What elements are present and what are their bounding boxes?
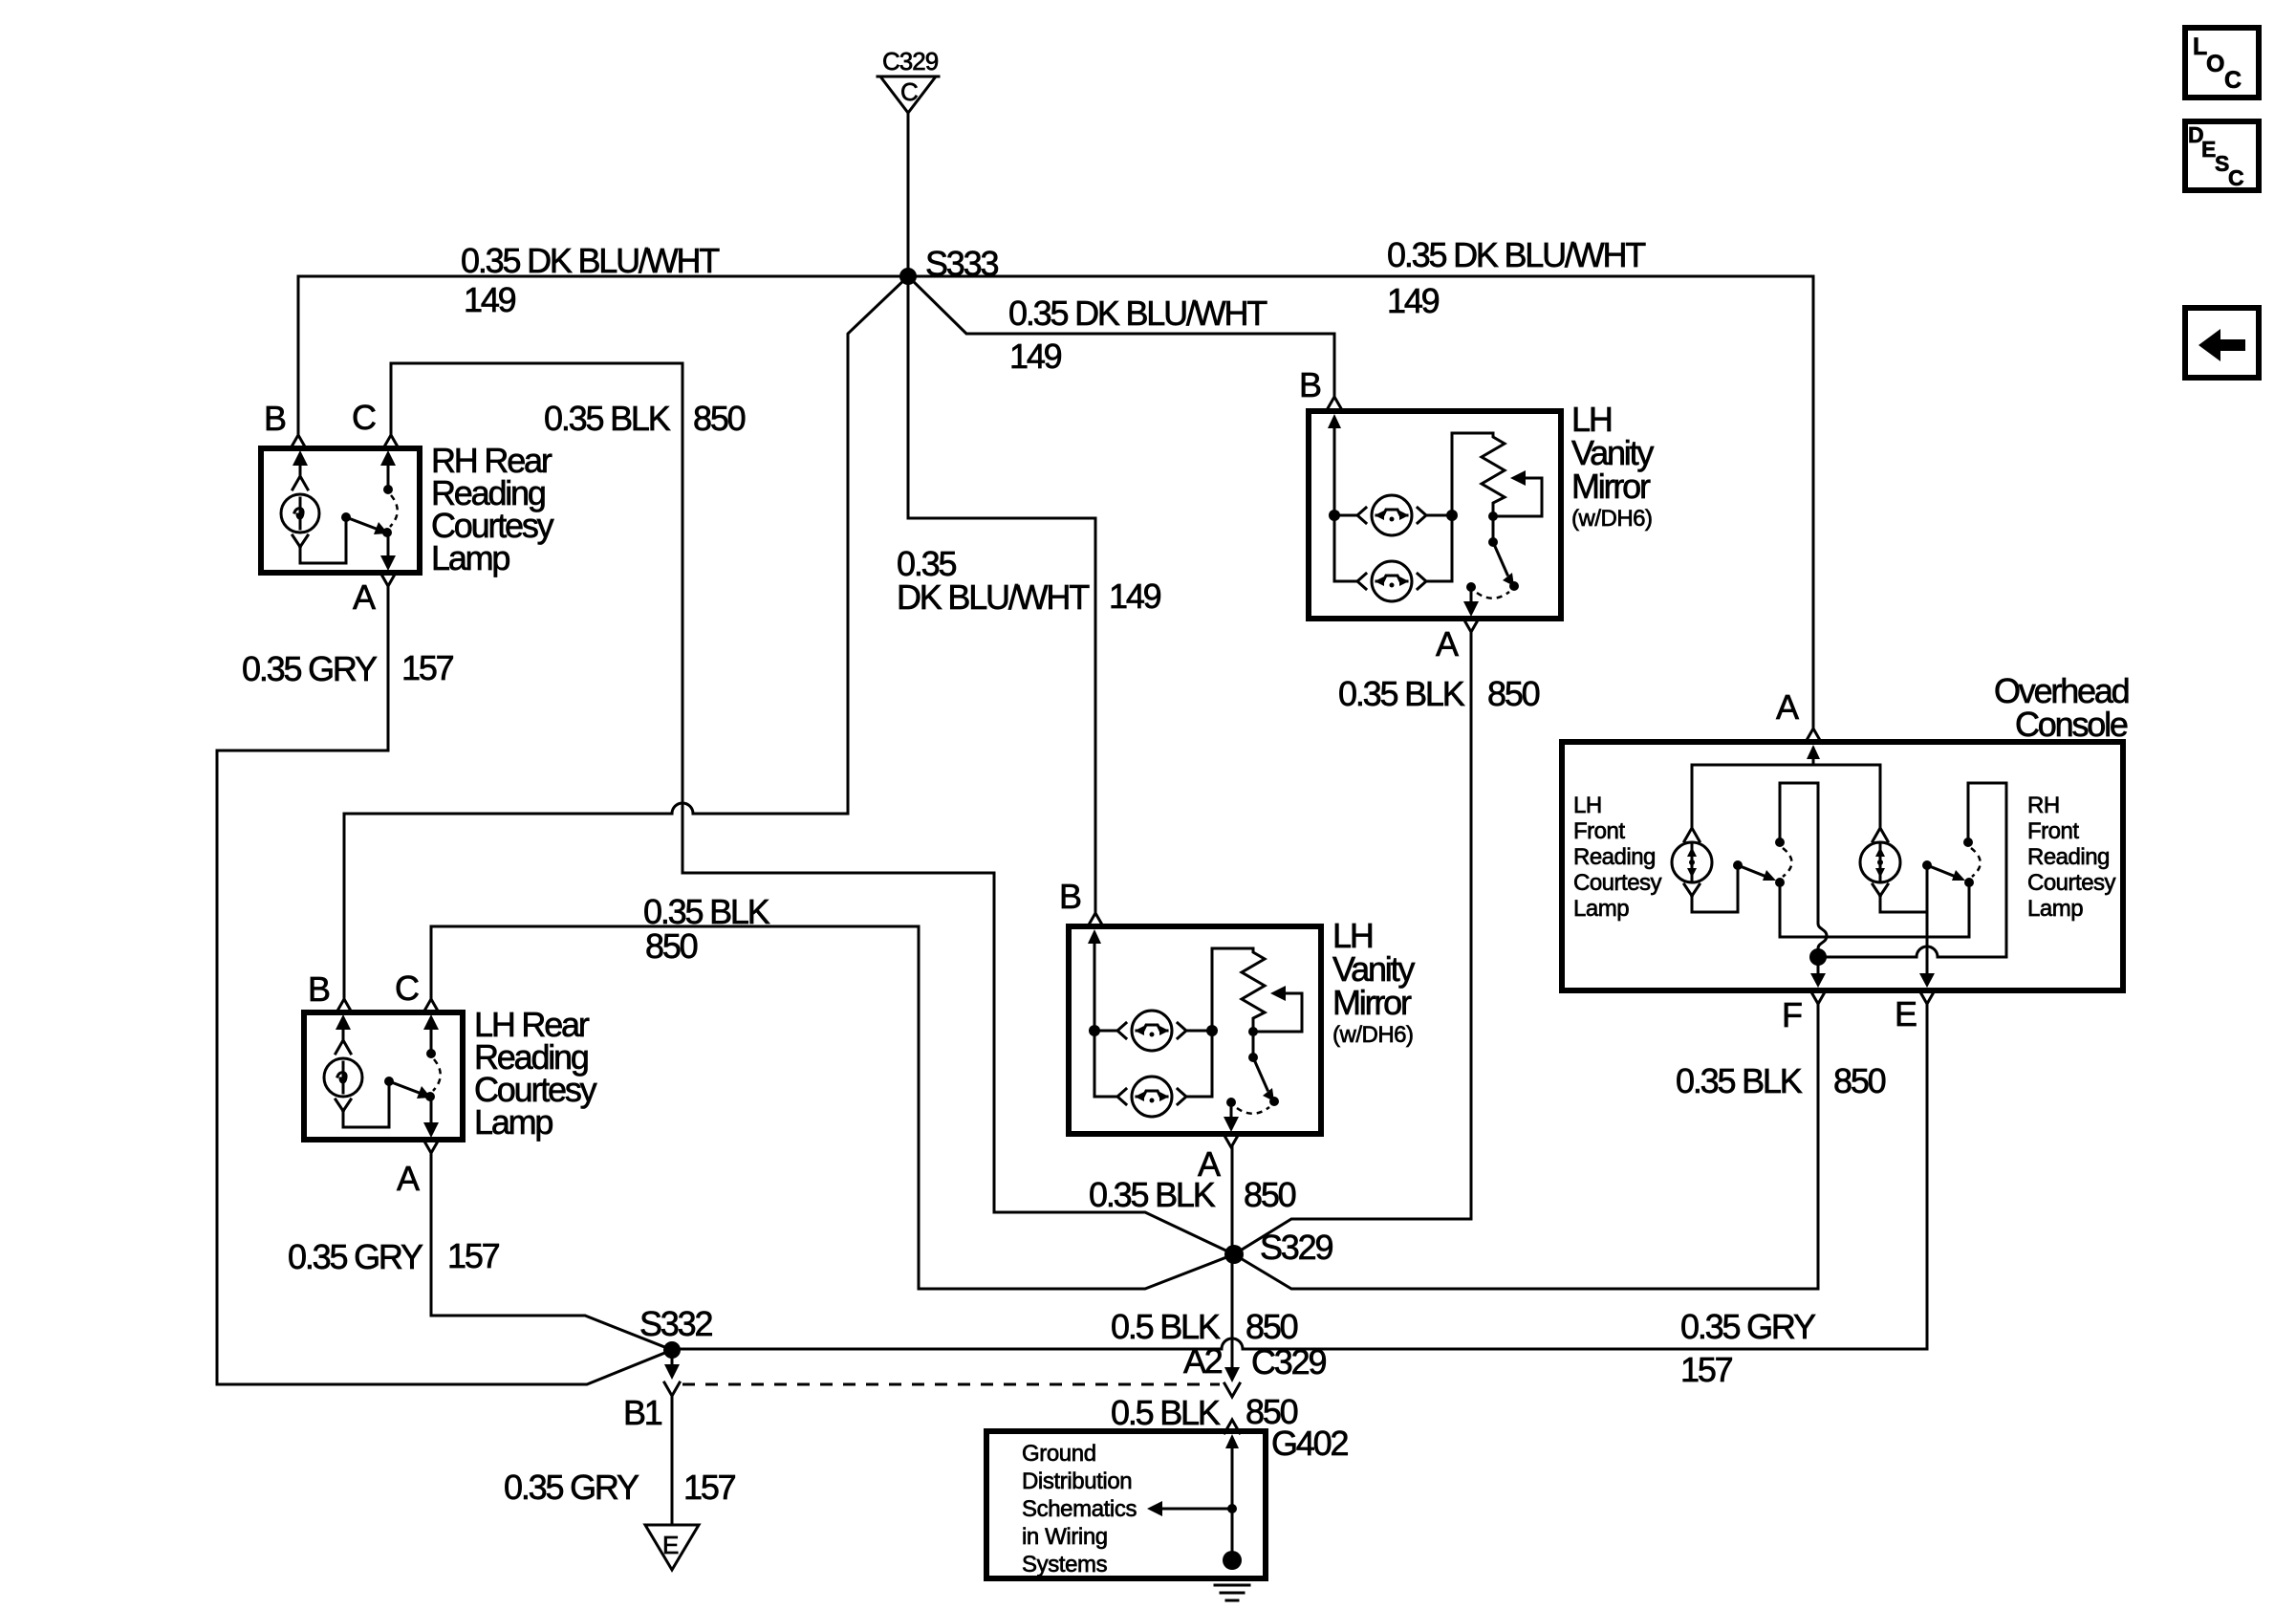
lamp bulb (LH rear): [324, 1058, 362, 1097]
connector E (triangle): [645, 1525, 699, 1570]
svg-text:149: 149: [1109, 577, 1161, 616]
RH switch arm: [1927, 865, 1956, 877]
wire lower vanity pin A to S329 (0.35 BLK 850): [1231, 1147, 1234, 1254]
wire S333 down to lower LH vanity mirror pin B (0.35 DK BLU/WHT 149): [908, 276, 1103, 926]
switch pivot: [384, 1077, 394, 1086]
svg-text:850: 850: [693, 399, 746, 438]
LH Rear Reading Courtesy Lamp: [304, 968, 597, 1198]
RH front lamp bulb: [1873, 765, 1888, 841]
lower vanity lamp 1: [1094, 1023, 1126, 1038]
junction node at pin F: [1809, 948, 1827, 966]
svg-text:0.35 GRY: 0.35 GRY: [288, 1237, 423, 1276]
upper vanity lamp 1: [1334, 508, 1366, 523]
moving contact: [1509, 581, 1519, 591]
svg-text:850: 850: [1833, 1061, 1886, 1100]
label 0.5 BLK 850 (above C329): [1111, 1307, 1298, 1346]
svg-text:C329: C329: [882, 47, 939, 76]
svg-text:L: L: [2193, 33, 2207, 60]
svg-text:Lamp: Lamp: [1573, 896, 1629, 922]
label 0.35 GRY 157 (LH rear A wire): [288, 1236, 500, 1276]
svg-text:Schematics: Schematics: [1022, 1496, 1137, 1522]
pin A chevron: [380, 573, 396, 586]
ground stud G402: [1223, 1551, 1242, 1570]
svg-text:A: A: [397, 1159, 420, 1198]
fixed contact (pin C side): [383, 485, 393, 494]
moving contact (pin A side): [425, 1092, 435, 1101]
svg-text:149: 149: [464, 280, 516, 319]
wire RH rear lamp pin A to S332 (0.35 GRY 157): [217, 586, 672, 1384]
wire LH lamp to LH switch pivot: [1692, 870, 1738, 912]
svg-text:0.35 BLK: 0.35 BLK: [1676, 1061, 1803, 1100]
wire console pin E to S332 (0.35 GRY 157, hops over 850 wire): [672, 1004, 1927, 1349]
svg-text:C: C: [2224, 67, 2242, 94]
svg-text:0.5 BLK: 0.5 BLK: [1111, 1307, 1221, 1346]
pin A internal arrow: [1812, 749, 1815, 765]
svg-text:F: F: [1782, 995, 1802, 1034]
switch arm: [346, 517, 379, 530]
component box (LH Rear Reading Courtesy Lamp): [304, 1012, 463, 1140]
ground feed wire inside box: [1231, 1446, 1234, 1556]
RH moving contact: [1964, 878, 1974, 887]
fixed contact (pin C side): [426, 1049, 436, 1058]
lamp bulb (RH rear): [281, 494, 319, 533]
component box (RH Rear Reading Courtesy Lamp): [261, 448, 420, 573]
ground symbol G402: [1215, 1585, 1249, 1600]
RH upper contact: [1963, 838, 1973, 847]
svg-text:in Wiring: in Wiring: [1022, 1524, 1108, 1550]
fixed contact (pin A side): [1226, 1098, 1236, 1107]
back arrow box: [2185, 308, 2259, 378]
svg-text:A2: A2: [1183, 1341, 1223, 1381]
upper vanity lamp 2: [1334, 574, 1366, 589]
connector C329 (top): [877, 47, 939, 113]
switch travel arc: [433, 1059, 441, 1091]
RH switch pivot: [1922, 860, 1932, 870]
svg-text:157: 157: [1680, 1350, 1733, 1389]
svg-text:0.35 BLK: 0.35 BLK: [1338, 674, 1465, 713]
svg-text:Console: Console: [2015, 705, 2128, 744]
svg-text:S329: S329: [1260, 1228, 1332, 1267]
switch arm: [389, 1081, 422, 1094]
switch travel arc: [1477, 592, 1509, 598]
svg-text:0.35 BLK: 0.35 BLK: [1089, 1175, 1216, 1214]
svg-text:C: C: [395, 968, 419, 1008]
svg-text:0.35 GRY: 0.35 GRY: [242, 649, 378, 688]
junction on right rail: [1446, 510, 1458, 521]
switch arm: [1493, 542, 1507, 575]
component box (Overhead Console): [1562, 742, 2123, 990]
svg-text:A: A: [353, 577, 376, 617]
RH switch travel arc: [1971, 848, 1981, 877]
svg-text:Front: Front: [2027, 818, 2079, 844]
junction on left rail: [1089, 1025, 1100, 1036]
wire console pin F to S329 (0.35 BLK 850): [1234, 1004, 1818, 1289]
svg-text:E: E: [1895, 994, 1917, 1033]
label 0.35 GRY 157 (console E wire): [1680, 1307, 1816, 1389]
svg-text:Courtesy: Courtesy: [1573, 870, 1662, 896]
wire lamp to switch pivot: [300, 522, 346, 563]
svg-text:B: B: [264, 399, 286, 438]
label 0.35 GRY 157 (bottom left): [504, 1468, 736, 1507]
moving contact (pin A side): [382, 528, 392, 537]
wire S333 right to Overhead Console pin A (0.35 DK BLU/WHT 149): [908, 276, 1821, 742]
svg-text:157: 157: [447, 1236, 500, 1275]
rheostat wiper arrow: [1253, 993, 1302, 1032]
LH upper contact: [1775, 838, 1785, 847]
pin A chevron: [1224, 1134, 1239, 1147]
wire S329 down to connector C329 pin A2 (0.5 BLK 850): [1224, 1262, 1240, 1397]
label 0.35 GRY 157 (RH rear A wire): [242, 648, 454, 688]
switch arm: [1253, 1057, 1267, 1090]
pin E chevron: [1919, 990, 1935, 1004]
wire RH pivot to pin E: [1926, 870, 1929, 975]
pin F chevron: [1810, 990, 1826, 1004]
reference pointer arrow: [1162, 1508, 1232, 1511]
wire LH contact to pin F (hops lamp link): [1780, 783, 1827, 957]
svg-text:0.35 DK BLU/WHT: 0.35 DK BLU/WHT: [1008, 294, 1267, 333]
wire pin F junction to RH upper contact (hops pin E wire): [1818, 783, 2006, 957]
svg-text:A: A: [1436, 624, 1459, 664]
wire B1 to connector E (0.35 GRY 157): [671, 1396, 674, 1523]
wire LH rear lamp pin C to S329 (0.35 BLK 850): [423, 926, 1234, 1289]
fixed contact (pin A side): [1466, 582, 1476, 592]
svg-text:850: 850: [1244, 1175, 1296, 1214]
svg-text:Systems: Systems: [1022, 1552, 1108, 1577]
svg-text:149: 149: [1009, 337, 1062, 376]
right rail wire: [1452, 433, 1493, 581]
svg-text:B: B: [308, 969, 330, 1009]
svg-text:0.35 GRY: 0.35 GRY: [1680, 1307, 1816, 1346]
moving contact: [1269, 1097, 1279, 1106]
svg-text:0.35 DK BLU/WHT: 0.35 DK BLU/WHT: [461, 241, 720, 280]
pin B internal rail + arrow: [1333, 421, 1336, 581]
wire C329 to S333: [907, 113, 910, 276]
svg-text:850: 850: [645, 926, 698, 966]
svg-text:C: C: [900, 77, 918, 106]
lower vanity lamp 2: [1094, 1089, 1126, 1104]
LOC box: [2185, 28, 2259, 98]
junction node: [1227, 1504, 1237, 1513]
pin A internal arrow: [1470, 592, 1473, 602]
wire upper vanity pin A to S329 (0.35 BLK 850): [1234, 632, 1471, 1254]
svg-text:Ground: Ground: [1022, 1441, 1096, 1467]
svg-text:(w/DH6): (w/DH6): [1571, 506, 1653, 532]
svg-text:B1: B1: [623, 1393, 662, 1432]
svg-text:Lamp: Lamp: [2027, 896, 2083, 922]
svg-text:C: C: [2228, 165, 2244, 190]
LH moving contact: [1775, 878, 1785, 887]
junction on right rail: [1206, 1025, 1218, 1036]
component box (LH Vanity Mirror upper): [1309, 411, 1561, 619]
rheostat wiper arrow: [1493, 478, 1542, 516]
LH Vanity Mirror (upper, w/DH6): [1299, 365, 1654, 664]
LH Vanity Mirror (lower, w/DH6): [1059, 877, 1415, 1184]
wire lamp to switch pivot: [343, 1086, 389, 1127]
LH switch pivot: [1733, 860, 1743, 870]
LH switch arm: [1738, 865, 1766, 877]
svg-text:DK BLU/WHT: DK BLU/WHT: [897, 577, 1090, 617]
wire RH rear lamp pin C ground path to S329 (0.35 BLK 850): [383, 363, 1234, 1254]
RH Rear Reading Courtesy Lamp: [261, 398, 554, 617]
label 0.35 BLK 850 (lower vanity A wire): [1089, 1175, 1296, 1214]
pin B internal arrow: [299, 456, 302, 478]
pin A chevron: [1463, 619, 1479, 632]
label 0.5 BLK 850 (below C329): [1111, 1392, 1298, 1432]
Overhead Console: [1562, 671, 2129, 1034]
wire S333 left to RH rear lamp pin B (0.35 DK BLU/WHT 149): [291, 276, 908, 448]
svg-text:C329: C329: [1251, 1342, 1326, 1382]
label 0.35 DK BLU/WHT 149 (middle): [1008, 294, 1267, 376]
svg-text:157: 157: [401, 648, 454, 687]
label 0.35 DK BLU/WHT 149 (top right): [1387, 235, 1646, 320]
label 0.35 BLK 850 (upper vanity A wire): [1338, 674, 1540, 713]
svg-text:RH: RH: [2027, 793, 2060, 818]
feed rail wire: [1692, 764, 1880, 767]
dimmer rheostat (resistor): [1242, 948, 1265, 1032]
svg-text:0.5 BLK: 0.5 BLK: [1111, 1393, 1221, 1432]
svg-text:0.35 BLK: 0.35 BLK: [643, 892, 770, 931]
LH front lamp bulb: [1684, 765, 1700, 841]
pin B internal arrow: [342, 1020, 345, 1042]
svg-text:157: 157: [683, 1468, 736, 1507]
dimmer rheostat (resistor): [1482, 433, 1505, 516]
svg-text:Reading: Reading: [2027, 844, 2110, 870]
svg-text:Lamp: Lamp: [431, 538, 509, 577]
svg-text:(w/DH6): (w/DH6): [1332, 1022, 1414, 1048]
switch pivot: [1492, 516, 1495, 542]
DESC box: [2185, 121, 2259, 190]
svg-text:Lamp: Lamp: [474, 1102, 552, 1142]
svg-text:Courtesy: Courtesy: [2027, 870, 2116, 896]
svg-text:850: 850: [1245, 1307, 1298, 1346]
splice S332: [639, 1304, 712, 1359]
pin A chevron: [423, 1140, 439, 1153]
connector C329 pins A2: [1183, 1341, 1326, 1382]
junction on left rail: [1329, 510, 1340, 521]
svg-text:LH: LH: [1573, 793, 1602, 818]
connector C329 pin B1 (S332 down): [623, 1355, 680, 1432]
svg-text:E: E: [662, 1531, 679, 1559]
reference box (Ground Distribution Schematics): [986, 1431, 1266, 1578]
wire S333 to upper LH vanity mirror pin B (0.35 DK BLU/WHT 149): [908, 276, 1342, 410]
pin B internal rail + arrow: [1094, 936, 1096, 1097]
label 0.35 DK BLU/WHT 149 (vertical run): [897, 544, 1161, 617]
svg-text:S332: S332: [639, 1304, 712, 1343]
splice S333: [899, 244, 998, 285]
switch travel arc: [1237, 1107, 1269, 1114]
svg-text:B: B: [1059, 877, 1081, 916]
svg-text:850: 850: [1487, 674, 1540, 713]
svg-text:A: A: [1776, 687, 1799, 727]
right rail wire: [1212, 948, 1253, 1097]
wire RH lamp to RH pivot line: [1880, 896, 1927, 912]
pin A internal arrow: [1230, 1107, 1233, 1118]
switch pivot: [341, 512, 351, 522]
svg-text:C: C: [352, 398, 376, 437]
label 0.35 DK BLU/WHT 149 (top left): [461, 241, 720, 319]
svg-text:Distribution: Distribution: [1022, 1469, 1132, 1494]
LH switch travel arc: [1783, 848, 1792, 877]
switch travel arc: [390, 495, 398, 527]
svg-text:149: 149: [1387, 281, 1440, 320]
svg-text:0.35 DK BLU/WHT: 0.35 DK BLU/WHT: [1387, 235, 1646, 274]
label 0.35 BLK 850 (LH rear C wire): [643, 892, 770, 966]
svg-text:0.35 BLK: 0.35 BLK: [544, 399, 671, 438]
svg-text:Front: Front: [1573, 818, 1625, 844]
label 0.35 BLK 850 (RH rear C wire): [544, 399, 746, 438]
label 0.35 BLK 850 (console F wire): [1676, 1061, 1886, 1100]
svg-text:Mirror: Mirror: [1571, 467, 1651, 506]
component box (LH Vanity Mirror lower): [1069, 926, 1321, 1134]
svg-text:Reading: Reading: [1573, 844, 1656, 870]
dashed connector line C329: [682, 1383, 1220, 1386]
svg-text:G402: G402: [1271, 1424, 1348, 1463]
wire S333 to LH rear lamp pin B (0.35 DK BLU/WHT, hops over BLK wire): [336, 276, 908, 1012]
wire linking LH and RH moving contacts: [1780, 887, 1969, 937]
wire LH rear lamp pin A to S332 (0.35 GRY 157): [431, 1153, 672, 1350]
splice S329: [1224, 1228, 1332, 1267]
wire C329 to G402 (0.5 BLK 850): [1224, 1420, 1240, 1433]
switch pivot: [1252, 1032, 1255, 1057]
svg-text:Mirror: Mirror: [1332, 983, 1412, 1022]
svg-text:0.35 GRY: 0.35 GRY: [504, 1468, 639, 1507]
G402 Ground Distribution box: [986, 1424, 1348, 1578]
svg-text:B: B: [1299, 365, 1321, 404]
svg-text:O: O: [2206, 51, 2224, 77]
